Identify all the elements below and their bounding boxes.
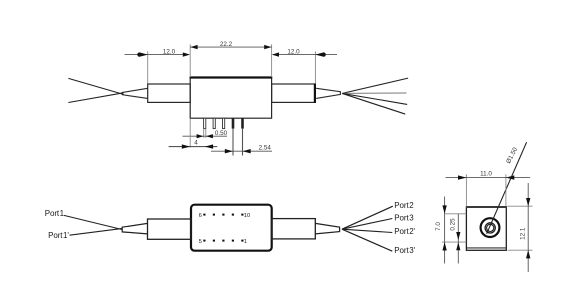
side view: right fan fiber 3 — [342, 93, 407, 104]
svg-text:12.1: 12.1 — [519, 227, 526, 240]
svg-text:Port 1: Port 1 — [45, 209, 65, 218]
svg-text:Port 2': Port 2' — [394, 227, 415, 236]
side view: left fiber upper — [68, 78, 123, 94]
svg-text:7.0: 7.0 — [435, 222, 442, 231]
top view: Port 3 fiber — [342, 219, 392, 230]
end view dimension: 12.1 — [507, 183, 532, 272]
end view: box top thick edge — [466, 206, 507, 208]
side view: right fan fiber 1 — [342, 78, 408, 93]
end view: outer circle — [481, 218, 500, 237]
svg-text:11.0: 11.0 — [480, 171, 492, 178]
side view: body outline — [190, 77, 271, 118]
side view dimension: 22.2 — [190, 44, 271, 77]
svg-text:22.2: 22.2 — [220, 41, 233, 48]
end view: middle circle — [485, 223, 495, 233]
end view: leader line to bore — [487, 142, 527, 234]
end view dimension: 0.25 — [456, 214, 460, 264]
top view: Port 3' fiber — [342, 229, 392, 251]
svg-text:2.54: 2.54 — [259, 144, 272, 151]
end view: box — [466, 207, 506, 251]
top view: Port 2' fiber — [342, 229, 392, 232]
side view: body top thick edge — [190, 76, 273, 78]
end view: inner circle — [487, 224, 494, 231]
side view dimension: 4 — [169, 118, 218, 149]
side view: left boot cone — [122, 88, 147, 98]
end view: box inner bottom line — [467, 247, 506, 249]
top view: right boot cone — [315, 223, 339, 234]
top view: port labels — [45, 201, 416, 255]
top view: Port 1' fiber — [70, 228, 123, 235]
top view: pin marker dots row 5-1 — [203, 240, 243, 242]
top view: left tube — [148, 219, 192, 239]
svg-text:Port 1': Port 1' — [48, 231, 69, 240]
svg-text:0.50: 0.50 — [215, 130, 228, 137]
svg-text:10: 10 — [244, 213, 250, 219]
pin 1 outline — [204, 118, 206, 128]
top view: body rounded rect — [191, 205, 272, 251]
top view: right tube — [272, 219, 316, 239]
pin 3 outline — [223, 118, 225, 128]
side view dimension: 2.54 pin pitch — [211, 129, 272, 156]
svg-text:5: 5 — [199, 239, 202, 245]
side view dimension: 12.0 left — [125, 51, 191, 83]
side view: right fan fiber 4 — [342, 93, 405, 114]
top view: Port 2 fiber — [342, 206, 393, 229]
side view: left fiber lower — [68, 93, 123, 103]
svg-text:6: 6 — [199, 213, 202, 219]
top view: Port 1 fiber — [64, 215, 123, 229]
side view: right boot cone — [316, 88, 340, 98]
pin 4 filled — [232, 118, 235, 128]
svg-text:4: 4 — [194, 140, 198, 147]
side view dimension: 0.50 pin width — [183, 129, 228, 139]
pin 2 outline — [213, 118, 215, 128]
end view dimension: 7.0 — [442, 197, 466, 264]
svg-text:12.0: 12.0 — [287, 49, 300, 56]
svg-text:0.25: 0.25 — [449, 218, 456, 231]
svg-text:Port 3': Port 3' — [394, 246, 415, 255]
side view: right fan fiber 2 (gray) — [342, 92, 406, 94]
top view: pin marker dots row 6-10 — [203, 214, 243, 216]
svg-text:Port 3: Port 3 — [394, 213, 414, 222]
svg-text:12.0: 12.0 — [163, 49, 176, 56]
side view: right tube thick end edge — [314, 84, 316, 103]
top view: pin numbers — [199, 213, 251, 245]
svg-text:1: 1 — [244, 239, 247, 245]
side view: pins — [204, 118, 244, 128]
top view: left boot cone — [122, 223, 147, 234]
side view dimension: 12.0 right — [272, 51, 337, 83]
side view: left tube — [148, 84, 191, 102]
side view: right tube — [272, 84, 316, 102]
pin 5 filled — [241, 118, 244, 128]
end view dimension: 11.0 — [446, 174, 531, 206]
svg-text:Port 2: Port 2 — [394, 201, 414, 210]
